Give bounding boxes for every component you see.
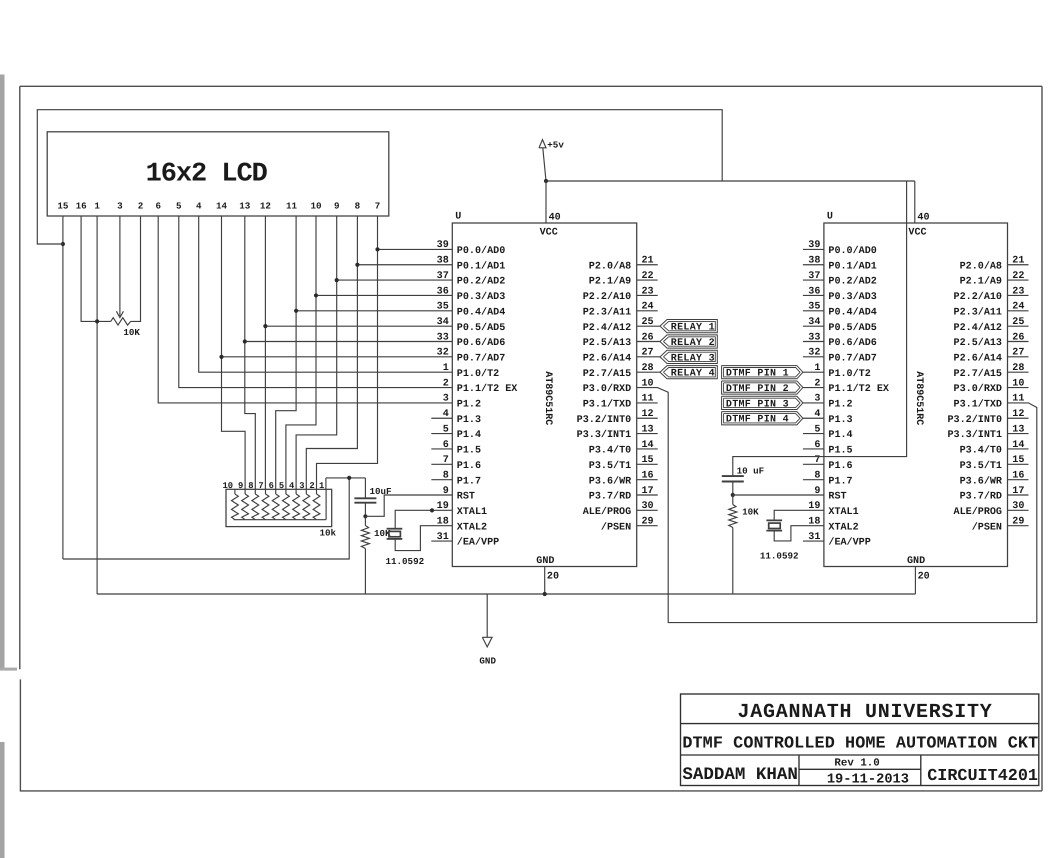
svg-text:16: 16 (1012, 470, 1024, 481)
svg-text:/EA/VPP: /EA/VPP (457, 537, 499, 549)
svg-text:13: 13 (642, 424, 654, 435)
svg-text:/EA/VPP: /EA/VPP (828, 537, 870, 549)
svg-text:P1.1/T2 EX: P1.1/T2 EX (457, 383, 519, 395)
power +5v symbol (539, 139, 564, 181)
svg-text:8: 8 (443, 470, 449, 481)
junction C2/R2/RST U2 (731, 493, 735, 497)
svg-text:15: 15 (642, 455, 654, 466)
svg-text:DTMF PIN 2: DTMF PIN 2 (726, 384, 789, 395)
svg-text:29: 29 (642, 517, 654, 528)
U1 pin 13 P3.3/INT1 (577, 424, 658, 441)
U2 pin 7 P1.6 (803, 455, 853, 472)
wire LCD pin 12 to U1 P0.5/AD5 and resistor pack (264, 216, 266, 489)
svg-text:P3.6/WR: P3.6/WR (960, 475, 1003, 487)
terminal flag DTMF PIN 4 (722, 412, 824, 426)
svg-text:P3.3/INT1: P3.3/INT1 (577, 429, 632, 441)
svg-text:P1.6: P1.6 (457, 461, 481, 472)
crystal X1 11.0592 (386, 510, 453, 567)
svg-text:P0.0/AD0: P0.0/AD0 (828, 245, 876, 257)
svg-text:XTAL2: XTAL2 (828, 522, 858, 533)
svg-text:/PSEN: /PSEN (972, 521, 1002, 533)
wire LCD pin 4 to U1 P1.0 (199, 216, 453, 372)
U1 pin 35 P0.4/AD4 (437, 302, 506, 319)
U2 pin 26 P2.5/A13 (954, 332, 1029, 349)
wire +5V link bottom (63, 478, 349, 559)
svg-text:P3.2/INT0: P3.2/INT0 (947, 414, 1002, 426)
U2 pin 30 ALE/PROG (954, 501, 1029, 518)
U1 pin 38 P0.1/AD1 (437, 256, 506, 273)
svg-text:SADDAM KHAN: SADDAM KHAN (682, 765, 798, 785)
svg-text:P3.2/INT0: P3.2/INT0 (577, 414, 632, 426)
svg-text:10: 10 (310, 200, 321, 211)
svg-text:8: 8 (355, 200, 361, 211)
terminal flag DTMF PIN 3 (722, 396, 824, 410)
svg-text:28: 28 (1012, 363, 1024, 374)
svg-text:21: 21 (1012, 256, 1024, 267)
wire +5V loop around left/top to rail (37, 110, 722, 244)
U1 pin 23 P2.2/A10 (583, 286, 658, 303)
wire ground bus (97, 593, 915, 595)
U2 pin 25 P2.4/A12 (954, 317, 1029, 334)
svg-text:AT89C51RC: AT89C51RC (913, 371, 924, 425)
svg-text:P1.3: P1.3 (828, 415, 852, 426)
U2 pin 9 RST (814, 486, 846, 503)
svg-text:P1.7: P1.7 (828, 476, 852, 487)
svg-text:34: 34 (808, 317, 820, 328)
svg-text:P3.1/TXD: P3.1/TXD (583, 399, 631, 411)
U1 pin 6 P1.5 (431, 440, 481, 457)
svg-text:10: 10 (223, 481, 234, 491)
wire LCD pin 5 to U1 P1.1 (179, 216, 453, 388)
svg-text:VCC: VCC (908, 227, 926, 238)
U1 pin 34 P0.5/AD5 (437, 317, 506, 334)
junction U1 pin20 on ground bus (543, 592, 547, 596)
svg-text:4: 4 (443, 409, 449, 420)
svg-text:10: 10 (1012, 378, 1024, 389)
svg-text:RST: RST (457, 492, 475, 503)
U1 pin 19 XTAL1 (437, 501, 487, 518)
U1 pin 10 P3.0/RXD (583, 378, 654, 395)
U2 pin 36 P0.3/AD3 (803, 286, 877, 303)
wire LCD pin 7 to U1 P0.0/AD0 and resistor pack (317, 216, 378, 489)
resistor network element 7 (293, 489, 300, 519)
svg-text:P2.5/A13: P2.5/A13 (583, 337, 631, 349)
U1 pin 17 P3.7/RD (589, 486, 658, 503)
U2 pin 8 P1.7 (803, 470, 853, 487)
svg-text:3: 3 (299, 481, 304, 491)
wire ground symbol drop (486, 594, 488, 637)
U2 pin 12 P3.2/INT0 (947, 409, 1028, 426)
svg-text:GND: GND (536, 556, 554, 567)
resistor network element 5 (272, 489, 279, 519)
U1 pin 8 P1.7 (431, 470, 481, 487)
ground symbol (479, 637, 496, 666)
svg-text:31: 31 (808, 532, 820, 543)
svg-text:P0.6/AD6: P0.6/AD6 (457, 337, 505, 349)
svg-text:P3.5/T1: P3.5/T1 (960, 460, 1002, 472)
U2 pin 31 /EA/VPP (803, 532, 871, 549)
U1 pin 18 XTAL2 (437, 517, 487, 534)
wire U1 pin 20 GND stub (544, 567, 546, 595)
svg-text:GND: GND (479, 656, 496, 667)
U1 pin 14 P3.4/T0 (589, 440, 658, 457)
terminal flag RELAY 3 (637, 350, 718, 364)
title block (681, 694, 1039, 786)
svg-text:36: 36 (808, 286, 820, 297)
wire LCD pin 15 vertical (LED+ / +5V net) (62, 216, 64, 559)
LCD module LCD1 16x2 (47, 132, 389, 216)
wire U1 RST to C1/R1 junction (365, 495, 452, 516)
svg-text:P0.5/AD5: P0.5/AD5 (828, 322, 876, 334)
svg-text:38: 38 (808, 256, 820, 267)
terminal flag RELAY 2 (637, 335, 718, 349)
resistor network element 8 (303, 489, 310, 519)
U2 pin 32 P0.7/AD7 (803, 348, 877, 365)
svg-text:5: 5 (814, 424, 820, 435)
svg-text:17: 17 (1012, 486, 1024, 497)
svg-text:RELAY 4: RELAY 4 (671, 369, 715, 380)
svg-text:26: 26 (1012, 332, 1024, 343)
U1 pin 29 /PSEN (601, 517, 658, 534)
wire LCD pin 16 to pot left terminal (81, 216, 111, 321)
U2 pin 34 P0.5/AD5 (803, 317, 877, 334)
terminal flag RELAY 1 (637, 320, 718, 334)
U2 pin 17 P3.7/RD (960, 486, 1029, 503)
svg-text:P0.4/AD4: P0.4/AD4 (457, 306, 505, 318)
U2 pin 39 P0.0/AD0 (803, 240, 877, 257)
svg-text:XTAL2: XTAL2 (457, 522, 487, 533)
capacitor C2 10 uF (722, 465, 764, 495)
svg-text:GND: GND (907, 556, 925, 567)
svg-text:10K: 10K (742, 506, 759, 517)
svg-text:14: 14 (1012, 440, 1024, 451)
svg-text:P1.0/T2: P1.0/T2 (828, 368, 870, 380)
svg-text:P2.7/A15: P2.7/A15 (583, 368, 631, 380)
U1 pin 21 P2.0/A8 (589, 256, 658, 273)
svg-text:5: 5 (443, 424, 449, 435)
U2 pin 1 P1.0/T2 (814, 363, 870, 380)
svg-text:P1.7: P1.7 (457, 476, 481, 487)
svg-text:19-11-2013: 19-11-2013 (827, 772, 909, 787)
svg-text:24: 24 (642, 302, 654, 313)
svg-text:P2.2/A10: P2.2/A10 (583, 291, 631, 303)
resistor network element 2 (242, 489, 249, 519)
wire LCD pin 11 to U1 P0.4/AD4 and resistor pack (276, 216, 296, 489)
U1 pin 27 P2.6/A14 (583, 348, 654, 365)
svg-text:33: 33 (808, 332, 820, 343)
resistor network element 9 (313, 489, 320, 519)
resistor R1 10K (361, 516, 391, 594)
svg-text:P3.7/RD: P3.7/RD (960, 491, 1002, 503)
U2 pin 29 /PSEN (972, 517, 1029, 534)
U1 pin 15 P3.5/T1 (589, 455, 658, 472)
junction pin15/frame wire (61, 242, 65, 246)
svg-text:35: 35 (808, 302, 820, 313)
svg-text:XTAL1: XTAL1 (828, 507, 858, 518)
svg-text:7: 7 (443, 455, 449, 466)
svg-text:11.0592: 11.0592 (760, 551, 799, 562)
svg-text:7: 7 (375, 200, 381, 211)
U2 pin 2 P1.1/T2 EX (814, 378, 890, 395)
svg-text:8: 8 (248, 481, 253, 491)
svg-text:P2.4/A12: P2.4/A12 (954, 322, 1002, 334)
svg-text:22: 22 (1012, 271, 1024, 282)
svg-text:7: 7 (258, 481, 263, 491)
svg-text:RELAY 3: RELAY 3 (671, 353, 715, 364)
U2 pin 22 P2.1/A9 (960, 271, 1029, 288)
svg-text:ALE/PROG: ALE/PROG (954, 506, 1002, 518)
svg-text:U: U (455, 211, 461, 222)
svg-text:9: 9 (334, 200, 340, 211)
svg-text:P1.3: P1.3 (457, 415, 481, 426)
potentiometer RV1 10K (111, 307, 141, 339)
svg-text:4: 4 (289, 481, 295, 491)
wire LCD pin 8 to U1 P0.1/AD1 and resistor pack (306, 216, 357, 489)
svg-text:VCC: VCC (540, 227, 558, 238)
wire LCD pin 2 to pot right terminal (131, 216, 141, 321)
wire U1 P3.0/RXD to U2 P3.1/TXD serial link (637, 388, 1037, 623)
svg-text:P2.3/A11: P2.3/A11 (583, 306, 631, 318)
U1 pin 37 P0.2/AD2 (437, 271, 506, 288)
svg-text:10k: 10k (320, 528, 337, 539)
resistor network pin numbers (223, 481, 325, 491)
svg-text:P3.0/RXD: P3.0/RXD (954, 383, 1002, 395)
svg-text:6: 6 (443, 440, 449, 451)
svg-text:+5v: +5v (547, 139, 564, 150)
U2 pin 27 P2.6/A14 (954, 348, 1029, 365)
U1 pin 3 P1.2 (443, 394, 481, 411)
svg-text:25: 25 (1012, 317, 1024, 328)
svg-text:RELAY 1: RELAY 1 (671, 323, 715, 334)
U2 pin 15 P3.5/T1 (960, 455, 1029, 472)
U2 pin 13 P3.3/INT1 (947, 424, 1028, 441)
wire LCD pin 10 to U1 P0.3/AD3 and resistor pack (286, 216, 316, 489)
svg-text:DTMF PIN 1: DTMF PIN 1 (726, 369, 789, 380)
crystal X2 11.0592 (760, 510, 824, 561)
svg-text:P0.1/AD1: P0.1/AD1 (457, 260, 505, 272)
svg-text:3: 3 (117, 200, 123, 211)
svg-text:11: 11 (286, 200, 298, 211)
wire LCD pin 3 to pot wiper (119, 216, 121, 307)
svg-text:16: 16 (642, 470, 654, 481)
svg-text:DTMF PIN 3: DTMF PIN 3 (726, 399, 789, 410)
svg-text:23: 23 (642, 286, 654, 297)
U2 pin 21 P2.0/A8 (960, 256, 1029, 273)
svg-text:32: 32 (808, 348, 820, 359)
wire U2 pin 40 VCC stub (914, 181, 916, 223)
svg-text:Rev 1.0: Rev 1.0 (834, 757, 879, 769)
svg-text:30: 30 (642, 501, 654, 512)
svg-text:XTAL1: XTAL1 (457, 507, 487, 518)
svg-text:15: 15 (1012, 455, 1024, 466)
svg-text:16: 16 (76, 200, 87, 211)
U2 pin 14 P3.4/T0 (960, 440, 1029, 457)
svg-text:P3.7/RD: P3.7/RD (589, 491, 631, 503)
svg-text:24: 24 (1012, 302, 1024, 313)
U2 pin 38 P0.1/AD1 (803, 256, 877, 273)
svg-text:P3.6/WR: P3.6/WR (589, 475, 632, 487)
svg-text:4: 4 (196, 200, 202, 211)
U2 pin 18 XTAL2 (808, 517, 858, 534)
U1 pin 9 RST (443, 486, 475, 503)
junction +5v rail / U1 VCC (544, 179, 548, 183)
svg-text:RST: RST (828, 492, 846, 503)
svg-text:P3.4/T0: P3.4/T0 (960, 445, 1002, 457)
svg-text:9: 9 (238, 481, 243, 491)
wire LCD pin 14 to U1 P0.7/AD7 and resistor pack (222, 216, 246, 489)
svg-text:/PSEN: /PSEN (601, 521, 631, 533)
svg-text:37: 37 (808, 271, 820, 282)
svg-text:10K: 10K (123, 327, 140, 338)
svg-text:RELAY 2: RELAY 2 (671, 338, 715, 349)
resistor network element 1 (232, 489, 239, 519)
svg-text:30: 30 (1012, 501, 1024, 512)
svg-text:P0.3/AD3: P0.3/AD3 (828, 291, 876, 303)
svg-text:P0.5/AD5: P0.5/AD5 (457, 322, 505, 334)
svg-text:8: 8 (814, 470, 820, 481)
svg-text:14: 14 (642, 440, 654, 451)
svg-text:1: 1 (94, 200, 100, 211)
svg-text:31: 31 (437, 532, 449, 543)
U2 pin 28 P2.7/A15 (954, 363, 1029, 380)
U1 pin 32 P0.7/AD7 (437, 348, 506, 365)
junction +5V node (347, 476, 351, 480)
svg-text:P1.5: P1.5 (457, 446, 481, 457)
svg-text:DTMF PIN 4: DTMF PIN 4 (726, 415, 789, 426)
svg-text:10 uF: 10 uF (737, 465, 765, 476)
svg-text:6: 6 (814, 440, 820, 451)
U1 pin 12 P3.2/INT0 (577, 409, 658, 426)
LCD pin number labels (57, 200, 380, 211)
svg-text:15: 15 (57, 200, 69, 211)
svg-text:P2.5/A13: P2.5/A13 (954, 337, 1002, 349)
resistor network RN1 10k (226, 489, 332, 526)
svg-text:P1.2: P1.2 (457, 400, 481, 411)
U2 pin 6 P1.5 (803, 440, 853, 457)
wire LCD pin 6 to U1 P1.2 (158, 216, 452, 403)
U1 pin 22 P2.1/A9 (589, 271, 658, 288)
svg-text:20: 20 (547, 572, 559, 583)
U1 pin 39 P0.0/AD0 (437, 240, 506, 257)
svg-text:6: 6 (269, 481, 274, 491)
U2 pin 37 P0.2/AD2 (803, 271, 877, 288)
svg-text:P2.1/A9: P2.1/A9 (589, 276, 631, 288)
svg-text:12: 12 (642, 409, 654, 420)
U1 pin 28 P2.7/A15 (583, 363, 654, 380)
svg-text:40: 40 (549, 213, 561, 224)
svg-text:P0.2/AD2: P0.2/AD2 (828, 276, 876, 288)
wire LCD pin 1 to ground bus (96, 216, 98, 594)
svg-text:12: 12 (1012, 409, 1024, 420)
svg-text:P3.1/TXD: P3.1/TXD (954, 399, 1002, 411)
svg-text:P2.1/A9: P2.1/A9 (960, 276, 1002, 288)
svg-text:P2.4/A12: P2.4/A12 (583, 322, 631, 334)
resistor network common lead (325, 489, 327, 519)
terminal flag RELAY 4 (637, 366, 718, 380)
svg-text:11: 11 (642, 394, 654, 405)
U2 pin 35 P0.4/AD4 (803, 302, 877, 319)
U1 pin 2 P1.1/T2 EX (443, 378, 519, 395)
U2 pin 24 P2.3/A11 (954, 302, 1029, 319)
svg-text:17: 17 (642, 486, 654, 497)
U1 pin 5 P1.4 (431, 424, 481, 441)
svg-text:P0.2/AD2: P0.2/AD2 (457, 276, 505, 288)
svg-text:P2.0/A8: P2.0/A8 (960, 260, 1002, 272)
U2 pin 4 P1.3 (814, 409, 852, 426)
svg-text:P2.2/A10: P2.2/A10 (954, 291, 1002, 303)
svg-text:P0.4/AD4: P0.4/AD4 (828, 306, 876, 318)
svg-text:20: 20 (918, 572, 930, 583)
svg-text:ALE/PROG: ALE/PROG (583, 506, 631, 518)
op U1 body AT89C51RC (452, 223, 636, 567)
U1 pin 31 /EA/VPP (431, 532, 499, 549)
svg-text:13: 13 (1012, 424, 1024, 435)
svg-text:12: 12 (260, 200, 271, 211)
wire U2 pin 20 GND stub (914, 567, 916, 595)
U2 pin 5 P1.4 (803, 424, 853, 441)
junction pin1/pot wire (95, 319, 99, 323)
svg-text:P0.6/AD6: P0.6/AD6 (828, 337, 876, 349)
wire +5V rail to U2 reset circuit (733, 181, 907, 476)
svg-text:P1.0/T2: P1.0/T2 (457, 368, 499, 380)
U2 pin 10 P3.0/RXD (954, 378, 1029, 395)
U2 pin 19 XTAL1 (808, 501, 858, 518)
viewer scrollbar artifact upper (0, 75, 5, 670)
U1 pin 16 P3.6/WR (589, 470, 658, 487)
svg-text:P0.0/AD0: P0.0/AD0 (457, 245, 505, 257)
svg-text:P3.4/T0: P3.4/T0 (589, 445, 631, 457)
svg-text:14: 14 (216, 200, 228, 211)
wire U2 RST to C2/R2 junction (733, 494, 824, 496)
svg-text:6: 6 (155, 200, 161, 211)
svg-text:DTMF CONTROLLED HOME AUTOMATIO: DTMF CONTROLLED HOME AUTOMATION CKT (682, 734, 1038, 753)
svg-text:11.0592: 11.0592 (386, 556, 425, 567)
wire U1 pin 40 VCC stub (545, 181, 547, 223)
svg-text:P0.3/AD3: P0.3/AD3 (457, 291, 505, 303)
svg-text:P0.7/AD7: P0.7/AD7 (457, 352, 505, 364)
wire resistor-pack common to +5V node (325, 478, 327, 489)
junction U1 XTAL1 wire (430, 508, 434, 512)
U1 pin 24 P2.3/A11 (583, 302, 658, 319)
svg-text:P1.1/T2 EX: P1.1/T2 EX (828, 383, 890, 395)
svg-text:40: 40 (917, 213, 929, 224)
wire +5V node to cap C1 (326, 477, 366, 479)
U2 pin 23 P2.2/A10 (954, 286, 1029, 303)
U2 pin 33 P0.6/AD6 (803, 332, 877, 349)
svg-text:22: 22 (642, 271, 654, 282)
op U2 body AT89C51RC (824, 223, 1008, 567)
svg-text:27: 27 (1012, 348, 1024, 359)
capacitor C1 10uF (354, 478, 391, 516)
svg-text:P1.2: P1.2 (828, 400, 852, 411)
wire LCD pin 13 to U1 P0.6/AD6 and resistor pack (245, 216, 256, 489)
svg-text:5: 5 (176, 200, 182, 211)
U1 pin 25 P2.4/A12 (583, 317, 654, 334)
svg-text:13: 13 (239, 200, 251, 211)
svg-text:P3.3/INT1: P3.3/INT1 (947, 429, 1002, 441)
svg-text:JAGANNATH UNIVERSITY: JAGANNATH UNIVERSITY (737, 701, 992, 724)
svg-text:29: 29 (1012, 517, 1024, 528)
svg-text:P3.5/T1: P3.5/T1 (589, 460, 631, 472)
svg-text:U: U (827, 211, 833, 222)
junction C1/R1/RST U1 (363, 514, 367, 518)
U1 pin 26 P2.5/A13 (583, 332, 654, 349)
resistor network element 3 (252, 489, 259, 519)
svg-text:P1.4: P1.4 (828, 430, 852, 441)
U1 pin 7 P1.6 (431, 455, 481, 472)
svg-text:P2.0/A8: P2.0/A8 (589, 260, 631, 272)
svg-text:AT89C51RC: AT89C51RC (542, 371, 553, 425)
